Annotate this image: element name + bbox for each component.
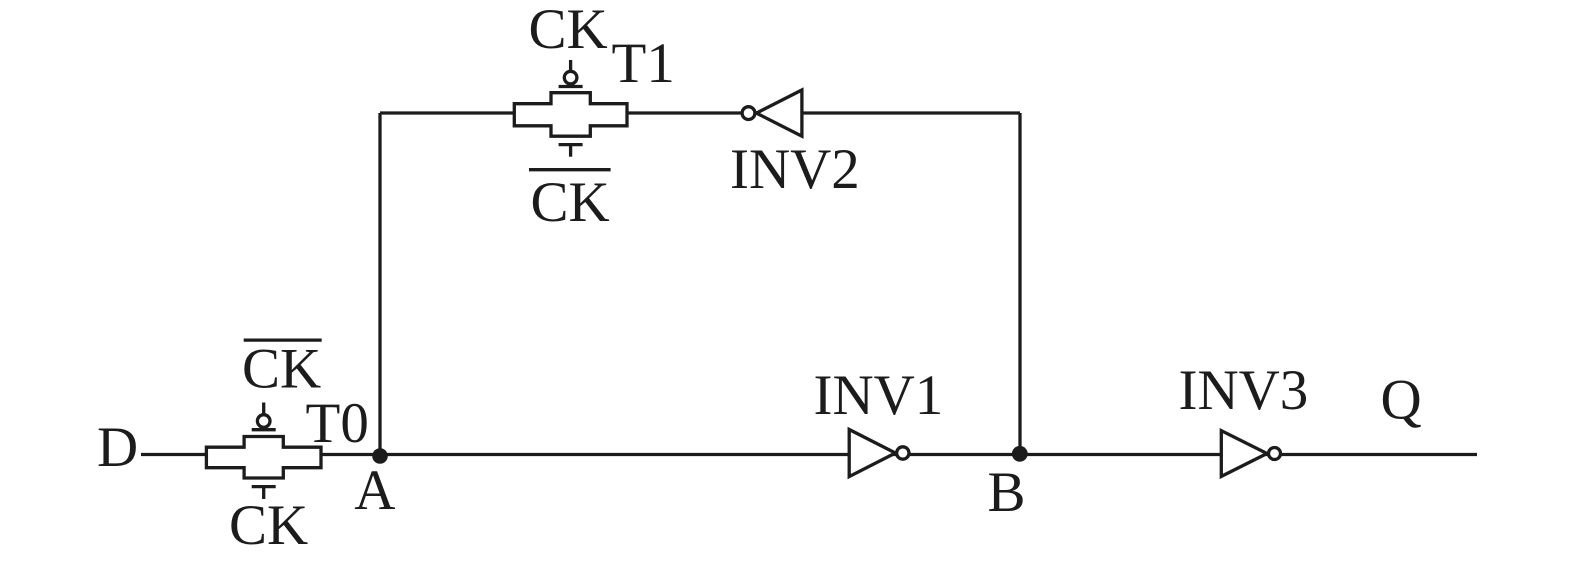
T1 nmos gate stub — [569, 145, 572, 157]
svg-text:CK: CK — [529, 0, 608, 61]
T0 nmos gate bar — [252, 485, 276, 488]
T0 nmos gate stub — [262, 487, 265, 499]
T1 pmos gate stub — [569, 60, 572, 71]
wire vertical from node A up to feedback — [378, 113, 381, 456]
INV1 output bubble — [897, 447, 909, 459]
svg-text:CK: CK — [229, 494, 308, 557]
T0 pmos gate stub — [262, 403, 265, 415]
label CK-bar overline (above T0) — [244, 338, 322, 341]
svg-text:T1: T1 — [612, 32, 675, 95]
svg-text:T0: T0 — [306, 392, 369, 455]
svg-text:INV1: INV1 — [814, 364, 944, 427]
label CK-bar overline (below T1) — [529, 168, 611, 171]
node B junction dot — [1012, 446, 1028, 462]
op-amp INV3 triangle — [1221, 431, 1267, 477]
transmission gate T0 body — [206, 437, 321, 479]
svg-text:A: A — [354, 459, 395, 522]
T1 pmos gate bubble — [564, 71, 577, 84]
wire vertical from feedback down to node B — [1018, 113, 1021, 454]
wire main horizontal D to Q — [141, 453, 1477, 456]
svg-text:INV3: INV3 — [1179, 359, 1309, 422]
wire top horizontal feedback — [380, 111, 1020, 114]
node A junction dot — [372, 448, 388, 464]
T0 pmos gate bar — [252, 428, 276, 431]
svg-text:INV2: INV2 — [730, 138, 860, 201]
svg-text:B: B — [988, 461, 1026, 524]
transmission gate T1 body — [514, 93, 627, 137]
T1 pmos gate bar — [559, 85, 583, 88]
op-amp INV1 triangle — [849, 430, 895, 477]
svg-text:Q: Q — [1381, 369, 1422, 432]
T1 nmos gate bar — [559, 143, 583, 146]
T0 pmos gate bubble — [257, 415, 270, 428]
INV2 output bubble — [742, 107, 755, 120]
INV3 output bubble — [1269, 448, 1281, 460]
svg-text:D: D — [97, 416, 138, 479]
svg-text:CK: CK — [531, 171, 610, 234]
op-amp INV2 triangle (points left) — [756, 90, 802, 136]
